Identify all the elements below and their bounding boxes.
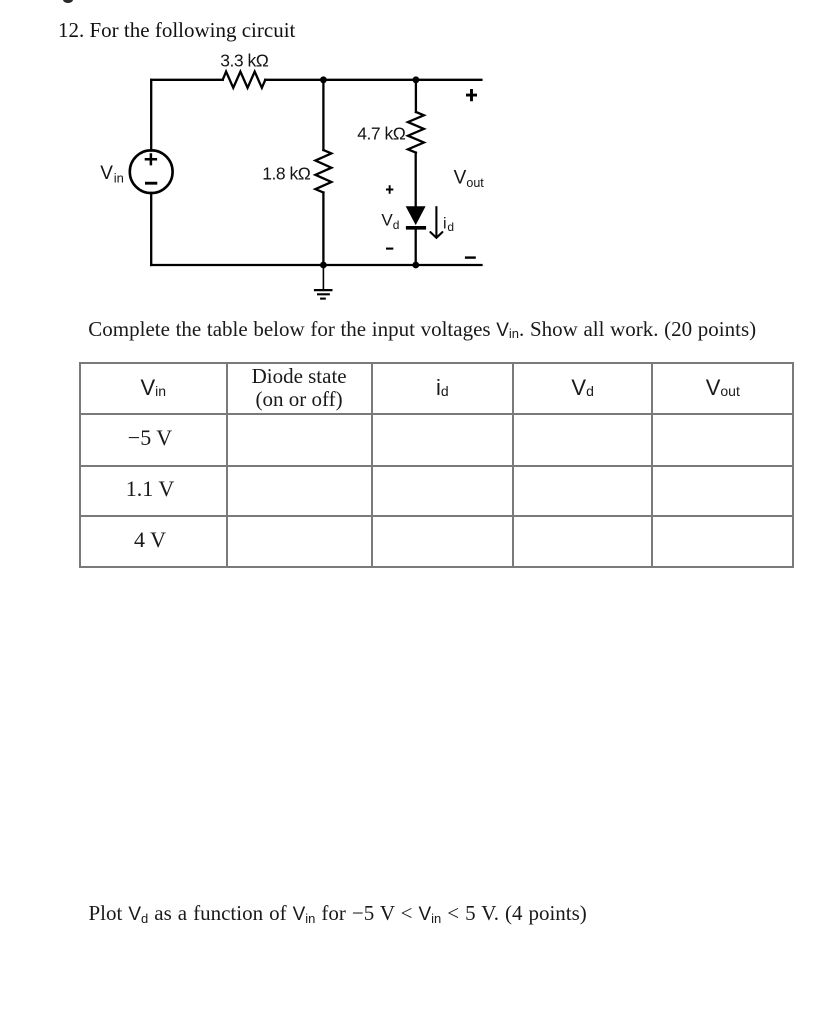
svg-text:out: out <box>466 176 484 190</box>
svg-text:d: d <box>393 218 400 232</box>
svg-text:3.3 kΩ: 3.3 kΩ <box>220 50 268 70</box>
svg-text:d: d <box>447 220 454 234</box>
svg-text:4.7 kΩ: 4.7 kΩ <box>357 124 405 144</box>
svg-text:V: V <box>454 168 467 189</box>
svg-text:1.8 kΩ: 1.8 kΩ <box>262 163 310 183</box>
svg-text:V: V <box>100 163 113 184</box>
svg-text:i: i <box>443 216 447 233</box>
svg-text:V: V <box>381 211 393 230</box>
svg-text:in: in <box>114 170 124 185</box>
